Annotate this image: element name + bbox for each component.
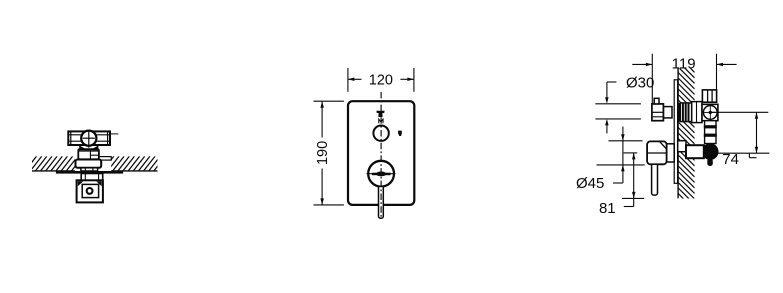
dimension 81: leader and text bbox=[624, 206, 634, 208]
right view: cartridge housing behind wall bbox=[678, 141, 686, 152]
left view: valve box corner wedge left bbox=[78, 181, 83, 186]
dimension 81: axis reference line bbox=[624, 152, 638, 154]
svg-text:74: 74 bbox=[722, 151, 739, 168]
right view: diverter knob stem bbox=[663, 107, 672, 118]
plate temperature icon bbox=[398, 131, 402, 136]
dimension 74: leader and text bbox=[748, 153, 750, 158]
left view: wall section hatching bbox=[20, 156, 171, 171]
right view: ball valve blob bbox=[702, 143, 719, 160]
right view: diverter valve ribbed section bbox=[680, 103, 691, 122]
left view: wall surface line bbox=[32, 170, 158, 172]
plate spray icon bbox=[376, 111, 384, 117]
lever handle front bbox=[379, 186, 384, 218]
left view: side outlet stub bbox=[99, 157, 111, 161]
right view: wall hatching bbox=[678, 56, 694, 215]
left view: wall-entry neck bbox=[81, 168, 98, 171]
dimension 190: dimension line with arrows bbox=[321, 102, 323, 138]
right view: cross fitting circle bbox=[703, 106, 717, 120]
dimension 120: right arrow bbox=[400, 78, 413, 80]
front plate bbox=[348, 101, 414, 205]
right view: lower pipe union nut bands bbox=[704, 125, 717, 128]
left view: tick right of grip bar bbox=[110, 133, 118, 135]
dimension 190: extension lines bbox=[314, 100, 344, 102]
vertical centerline bbox=[380, 92, 382, 217]
right view: lever handle hanging down bbox=[652, 164, 658, 195]
left view: lever grip bar bbox=[68, 131, 110, 145]
left view: grip bar inner lines bbox=[69, 134, 109, 136]
dimension 81: dimension line and arrows bbox=[633, 153, 635, 207]
left view: escutcheon plate edge-on bbox=[56, 171, 123, 174]
dimension D45: extension lines bbox=[609, 140, 643, 142]
dimension 74: dimension line and arrows bbox=[756, 112, 758, 153]
left view: lever dome wedge left bbox=[79, 145, 85, 148]
horizontal centerline ticks on escutcheon bbox=[367, 173, 373, 175]
dimension D45: leader and text bbox=[613, 182, 623, 184]
right view: diverter valve body section bbox=[692, 102, 702, 123]
left view: pivot cap cross lines bbox=[88, 130, 90, 148]
dimension 81: extension line at handle tip bbox=[622, 197, 644, 199]
right view: diverter knob tab bbox=[654, 98, 659, 104]
left view: inner cartridge square bbox=[82, 184, 98, 197]
dimension 74: upper axis extension line bbox=[712, 111, 769, 113]
left view: upper valve box behind wall bbox=[81, 174, 103, 181]
left view: pivot cap circle bbox=[81, 131, 96, 146]
right view: top pipe hex fitting bbox=[702, 90, 716, 102]
diverter knob circle front bbox=[373, 126, 388, 141]
right view: plate edge-on bbox=[674, 80, 677, 184]
right view: wall face line bbox=[677, 69, 679, 199]
svg-text:190: 190 bbox=[315, 141, 331, 165]
right view: diverter knob bbox=[652, 104, 664, 121]
dimension 119: right arrow bbox=[717, 63, 737, 65]
right view: cross fitting body bbox=[702, 104, 718, 120]
plate M mark bbox=[379, 119, 383, 123]
svg-text:Ø30: Ø30 bbox=[626, 74, 654, 91]
svg-text:120: 120 bbox=[369, 72, 393, 88]
left view: cartridge screw circle bbox=[87, 188, 93, 194]
dimension 120: extension lines bbox=[347, 68, 349, 92]
svg-text:119: 119 bbox=[672, 55, 696, 72]
lever escutcheon circle front bbox=[368, 161, 394, 187]
left view: main valve box behind wall bbox=[77, 180, 103, 202]
left view: lever dome wedge right bbox=[92, 145, 98, 148]
right view: diverter valve dark ring behind plate bbox=[678, 103, 681, 122]
dimension D30: dimension line and arrows bbox=[606, 82, 608, 98]
left view: body cutout in wall bbox=[75, 156, 111, 171]
svg-text:81: 81 bbox=[599, 200, 616, 217]
dimension D30: extension lines bbox=[595, 103, 641, 105]
dimension D30: leader and text bbox=[607, 81, 617, 83]
svg-text:Ø45: Ø45 bbox=[576, 175, 604, 192]
right view: lever body bbox=[647, 141, 667, 164]
right view: connecting arm to pipe bbox=[686, 145, 704, 158]
left view: collar bbox=[78, 149, 99, 159]
right view: ball valve tail bbox=[707, 159, 713, 167]
left view: valve box corner wedge right bbox=[96, 181, 101, 186]
dimension D45: dimension line and arrows bbox=[622, 127, 624, 184]
right view: lever stem bbox=[667, 144, 675, 162]
dimension 119: left arrow bbox=[632, 63, 652, 65]
right view: lower pipe bbox=[705, 121, 716, 144]
lever grip bar front bbox=[372, 173, 391, 176]
dimension 119: extension lines bbox=[651, 54, 653, 104]
left view: base flange bbox=[76, 160, 102, 168]
dimension 120: left arrow bbox=[348, 78, 361, 80]
dimension 74: lower axis extension line bbox=[718, 152, 770, 154]
